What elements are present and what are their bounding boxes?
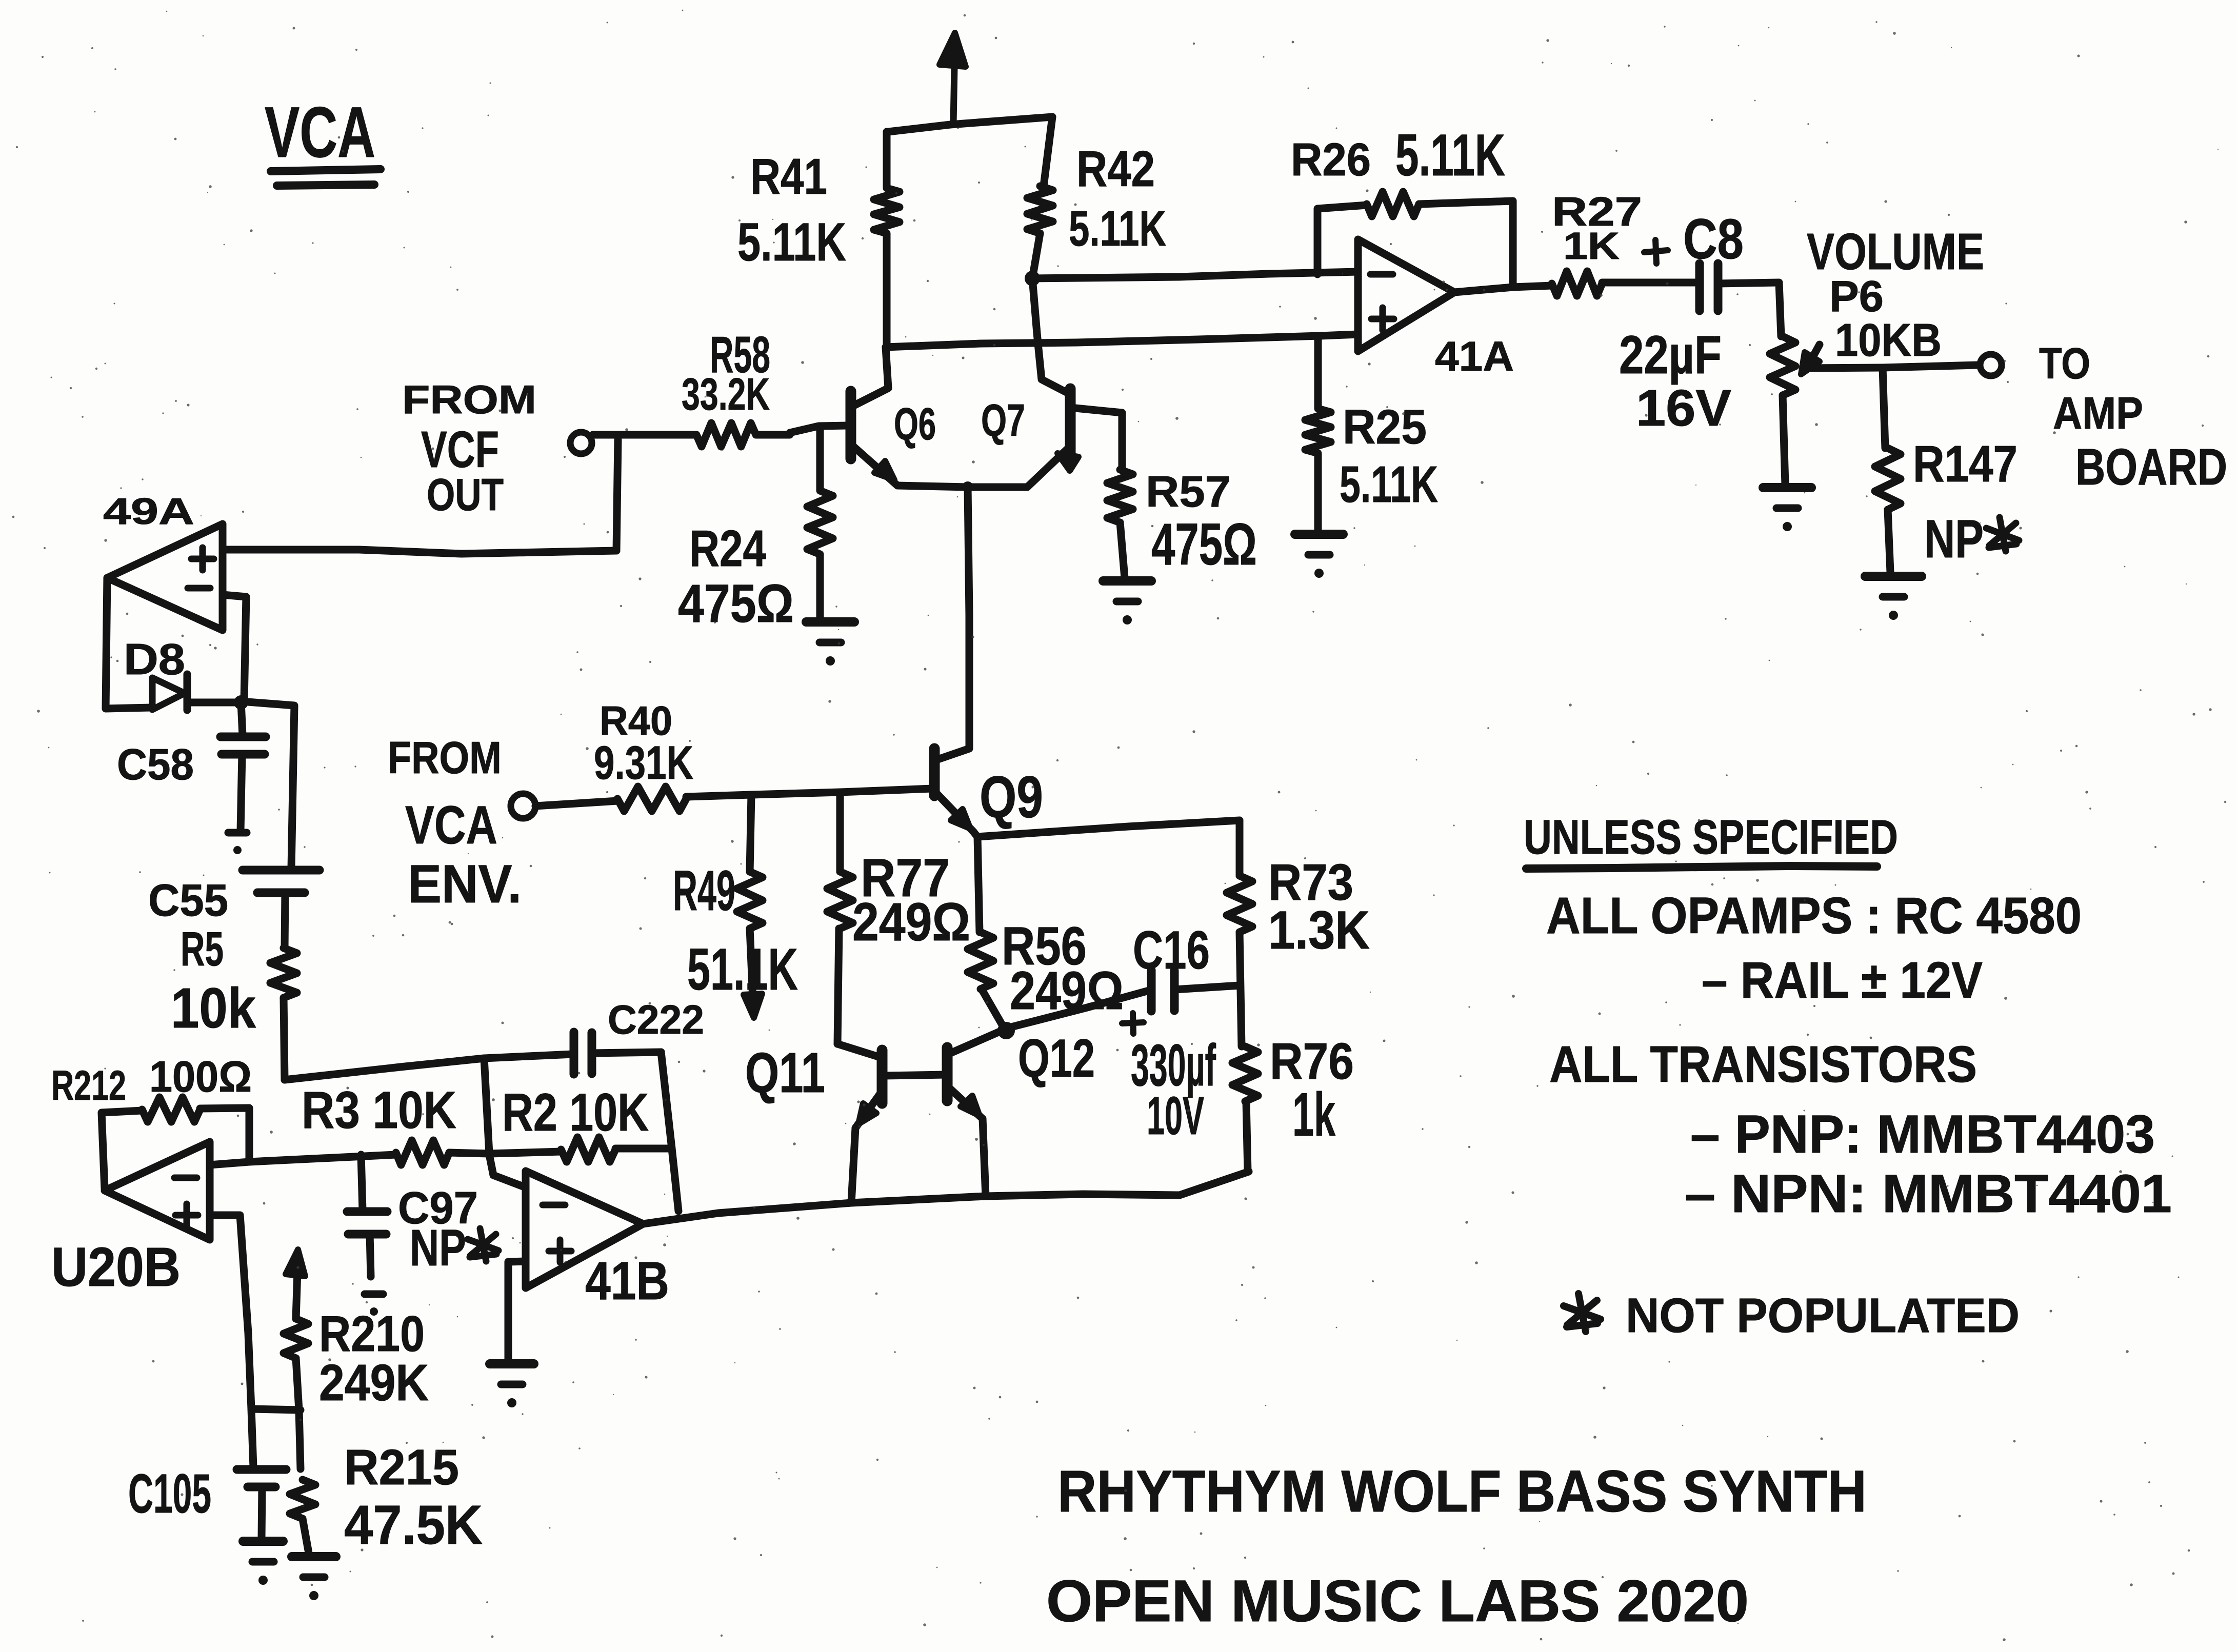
svg-text:9.31K: 9.31K <box>594 737 693 789</box>
node R42 junction <box>1025 271 1040 286</box>
svg-text:5.11K: 5.11K <box>737 212 846 272</box>
wire C8 to pot <box>1718 283 1781 336</box>
terminal to amp <box>1980 354 2002 376</box>
svg-text:5.11K: 5.11K <box>1340 456 1438 513</box>
wire U20B minus to R3 <box>210 1155 396 1165</box>
wire box top left <box>484 1054 573 1058</box>
wire R42 to Q7 collector <box>1032 278 1068 393</box>
node D8 out <box>234 695 248 710</box>
diode D8 <box>152 678 185 710</box>
svg-text:– PNP: MMBT4403: – PNP: MMBT4403 <box>1690 1104 2155 1164</box>
svg-text:R2 10K: R2 10K <box>502 1083 649 1142</box>
svg-text:10V: 10V <box>1147 1086 1204 1146</box>
pot wiper <box>1801 352 1820 374</box>
svg-text:NOT POPULATED: NOT POPULATED <box>1626 1288 2020 1343</box>
svg-text:C222: C222 <box>608 997 704 1042</box>
wire Q9 emitter node <box>973 832 977 837</box>
svg-text:249K: 249K <box>319 1354 429 1412</box>
resistor R41 <box>874 132 900 347</box>
svg-text:Q12: Q12 <box>1018 1029 1095 1089</box>
ground R215 <box>292 1552 336 1561</box>
wire plus leg to C105 <box>251 1409 253 1467</box>
svg-text:FROM: FROM <box>402 377 536 422</box>
capacitor C8 <box>1695 264 1704 311</box>
op-amp U9A <box>107 524 223 630</box>
wire U20B plus leg <box>210 1215 251 1409</box>
svg-text:OUT: OUT <box>427 469 504 520</box>
svg-text:C58: C58 <box>117 740 194 789</box>
svg-text:AMP: AMP <box>2053 388 2143 438</box>
wire box right <box>661 1052 678 1211</box>
wire top rail <box>888 117 1052 132</box>
plus sign C8 <box>1644 250 1668 252</box>
wire R5 to box <box>285 1058 484 1080</box>
svg-text:ENV.: ENV. <box>408 854 522 914</box>
plus sign C16 <box>1122 1022 1144 1023</box>
wire box top right <box>592 1052 661 1053</box>
svg-text:475Ω: 475Ω <box>678 574 794 634</box>
wire Q7 base to R57 <box>1070 408 1122 470</box>
svg-text:R212: R212 <box>51 1062 126 1109</box>
resistor R40 <box>535 801 617 806</box>
svg-text:100Ω: 100Ω <box>149 1053 252 1101</box>
wire U1B minus <box>489 1155 526 1187</box>
svg-text:OPEN MUSIC LABS 2020: OPEN MUSIC LABS 2020 <box>1046 1568 1749 1634</box>
wire emitter rail <box>897 486 1027 487</box>
note underline <box>1526 866 1877 869</box>
svg-text:R3 10K: R3 10K <box>302 1081 456 1139</box>
wire node to C55 <box>241 701 294 869</box>
ground R24 <box>806 617 854 627</box>
capacitor C16 <box>1147 970 1156 1011</box>
mini ground C97 <box>365 1291 383 1298</box>
svg-text:R26: R26 <box>1291 134 1371 186</box>
mini ground C58 <box>228 829 247 837</box>
resistor R73 <box>1236 820 1244 876</box>
svg-text:R41: R41 <box>750 148 827 205</box>
svg-text:FROM: FROM <box>388 732 502 783</box>
svg-text:NP: NP <box>410 1219 466 1277</box>
op-amp U1A <box>1358 239 1454 351</box>
terminal from VCF out <box>570 432 592 454</box>
resistor R77 <box>836 792 844 872</box>
power arrow V+ <box>953 40 955 123</box>
svg-text:1k: 1k <box>1292 1080 1335 1149</box>
resistor R212 feedback <box>102 1111 142 1188</box>
svg-text:249Ω: 249Ω <box>852 892 970 952</box>
svg-text:R49: R49 <box>673 859 735 922</box>
svg-text:1.3K: 1.3K <box>1268 900 1370 960</box>
transistor Q9 <box>929 749 940 796</box>
svg-text:R25: R25 <box>1343 400 1427 454</box>
wire plus leg to R210 <box>251 1409 301 1410</box>
svg-text:Q11: Q11 <box>745 1041 825 1104</box>
svg-text:NP: NP <box>1924 509 1984 569</box>
op-amp U20B <box>105 1142 210 1240</box>
ground U1B plus <box>490 1359 534 1368</box>
transistor Q11 <box>837 1044 880 1057</box>
svg-text:UNLESS SPECIFIED: UNLESS SPECIFIED <box>1524 810 1898 864</box>
resistor R147 <box>1883 368 1885 448</box>
ground R147 <box>1865 572 1922 581</box>
wire to U9A plus <box>227 550 616 554</box>
op-amp U1B <box>526 1171 643 1288</box>
resistor R42 <box>1044 117 1052 186</box>
resistor R2 <box>561 1137 615 1162</box>
svg-text:Q6: Q6 <box>894 398 936 449</box>
wire Q11 Q12 bases <box>883 1075 946 1076</box>
svg-text:C55: C55 <box>148 875 228 925</box>
node Q6Q7 emitters <box>962 481 973 493</box>
svg-text:R42: R42 <box>1076 140 1155 197</box>
svg-text:1K: 1K <box>1563 225 1620 267</box>
scan speckle <box>905 336 907 338</box>
svg-text:16V: 16V <box>1636 379 1731 437</box>
svg-text:R210: R210 <box>319 1305 425 1362</box>
svg-text:C8: C8 <box>1683 208 1744 271</box>
diode D8 feedback wire <box>106 578 151 709</box>
wire R41 to Q6 collector <box>853 347 888 406</box>
node R3 R2 <box>489 1152 561 1154</box>
transistor Q6 <box>846 391 856 459</box>
capacitor C58 <box>241 702 243 735</box>
resistor R58 <box>593 423 790 447</box>
svg-text:C105: C105 <box>128 1462 211 1524</box>
terminal from VCA env <box>511 794 535 818</box>
capacitor C55 <box>243 866 319 875</box>
svg-text:41B: 41B <box>585 1251 669 1311</box>
svg-text:ALL TRANSISTORS: ALL TRANSISTORS <box>1549 1036 1977 1093</box>
resistor R26 feedback <box>1317 205 1367 274</box>
potentiometer P6 <box>1770 336 1795 395</box>
svg-text:5.11K: 5.11K <box>1069 200 1166 256</box>
svg-text:41A: 41A <box>1435 333 1514 380</box>
svg-text:ALL OPAMPS : RC 4580: ALL OPAMPS : RC 4580 <box>1546 887 2082 944</box>
svg-text:R24: R24 <box>689 520 766 577</box>
ground P6 <box>1763 483 1811 492</box>
resistor R24 <box>807 426 833 619</box>
svg-text:P6: P6 <box>1829 272 1884 321</box>
resistor R49 <box>750 795 751 872</box>
wire U1A out <box>1454 286 1552 292</box>
capacitor C105 <box>237 1465 286 1474</box>
resistor R3 <box>396 1140 449 1165</box>
wire U1B plus <box>508 1261 526 1360</box>
svg-text:VCA: VCA <box>405 795 497 855</box>
wire VCF branch down <box>616 440 618 551</box>
wire U9A minus <box>223 595 246 701</box>
resistor R5 <box>285 893 285 948</box>
capacitor C222 <box>570 1032 578 1074</box>
transistor Q12 <box>949 1030 1003 1054</box>
resistor R27 <box>1552 271 1602 296</box>
svg-text:49A: 49A <box>103 491 194 532</box>
wire bottom rail <box>643 1172 1249 1224</box>
resistor R56 <box>977 837 980 932</box>
svg-text:D8: D8 <box>124 635 185 684</box>
resistor R76 <box>1232 1046 1258 1101</box>
wire plus bus <box>886 334 1358 347</box>
ground C105 <box>243 1537 283 1546</box>
svg-text:R215: R215 <box>344 1439 459 1495</box>
resistor R57 <box>1107 470 1133 522</box>
svg-text:Q7: Q7 <box>981 395 1025 446</box>
resistor R25 <box>1305 336 1331 531</box>
wire C16 to R73 <box>1174 985 1240 990</box>
wire box left <box>484 1058 489 1154</box>
svg-text:– RAIL ± 12V: – RAIL ± 12V <box>1702 952 1983 1009</box>
svg-text:C16: C16 <box>1133 920 1210 980</box>
svg-text:RHYTHYM WOLF BASS SYNTH: RHYTHYM WOLF BASS SYNTH <box>1057 1459 1867 1524</box>
ground R25 <box>1295 530 1343 539</box>
wire minus bus <box>1032 272 1358 278</box>
svg-text:47.5K: 47.5K <box>344 1494 483 1556</box>
resistor R215 <box>290 1480 315 1519</box>
svg-text:5.11K: 5.11K <box>1395 123 1505 188</box>
svg-text:33.2K: 33.2K <box>682 369 770 419</box>
svg-text:10KB: 10KB <box>1835 315 1942 366</box>
svg-text:– NPN: MMBT4401: – NPN: MMBT4401 <box>1685 1164 2172 1224</box>
svg-text:TO: TO <box>2039 339 2090 388</box>
svg-text:BOARD: BOARD <box>2075 438 2227 496</box>
svg-text:U20B: U20B <box>51 1236 181 1298</box>
svg-text:R57: R57 <box>1146 468 1231 516</box>
svg-text:R147: R147 <box>1913 435 2018 493</box>
svg-text:22µF: 22µF <box>1619 325 1722 385</box>
title underline <box>271 169 381 171</box>
svg-text:475Ω: 475Ω <box>1151 512 1257 577</box>
svg-text:10k: 10k <box>171 977 256 1040</box>
transistor Q7 <box>1065 389 1076 460</box>
svg-text:51.1K: 51.1K <box>687 937 798 1002</box>
wire Q9 emitter to R73 <box>977 820 1240 837</box>
note not populated star <box>1579 1294 1586 1332</box>
wire node to C16 <box>1009 991 1149 1028</box>
node R56 Q12 <box>997 1022 1015 1039</box>
svg-text:Q9: Q9 <box>980 764 1043 830</box>
svg-text:R5: R5 <box>181 922 224 976</box>
resistor R210 <box>286 1250 305 1276</box>
svg-text:VCA: VCA <box>265 92 375 172</box>
ground R57 <box>1103 576 1151 586</box>
capacitor C97 <box>361 1155 363 1210</box>
wire Q9 collector <box>936 487 969 760</box>
